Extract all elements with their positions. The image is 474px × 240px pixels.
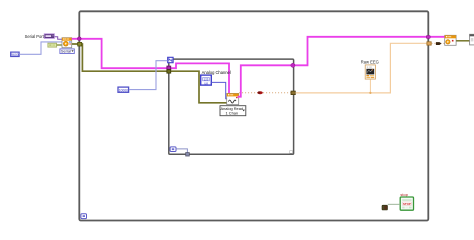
control stop button terminal — [400, 197, 413, 210]
wire iteration-to-tunnel — [176, 149, 187, 153]
error cluster constant — [48, 43, 57, 47]
wire baud-rate — [19, 42, 62, 54]
wire magenta Analog Read out to Close — [238, 37, 445, 97]
wire channel — [211, 82, 226, 98]
wire count N — [129, 61, 168, 90]
tunnel magenta on while-loop right edge — [426, 36, 430, 39]
wire error-in — [57, 44, 62, 46]
numeric constant baud — [11, 52, 19, 57]
svg-text:Analog Channel: Analog Channel — [202, 70, 231, 75]
polymorphic selector Analog Read 1 Chan — [220, 106, 246, 116]
wire VISA — [55, 37, 63, 40]
wire error Close to handler — [456, 40, 469, 42]
wire chart branch — [369, 80, 371, 93]
tunnel magenta on for-loop right edge — [291, 63, 295, 67]
loop condition terminal — [382, 205, 388, 210]
tunnel magenta on for-loop left edge — [167, 66, 171, 70]
junction chart branch — [369, 92, 371, 94]
LINX Analog Read VI — [227, 93, 239, 104]
for loop F1 border — [169, 59, 294, 154]
svg-text:10000: 10000 — [119, 88, 129, 92]
wire LINX device (magenta) Open to Analog Read — [72, 39, 229, 94]
LINX Open VI — [62, 38, 72, 48]
tunnel analog value on for-loop right edge — [291, 91, 295, 95]
wire analog value dotted inside for loop — [239, 92, 291, 94]
indicator Raw EEG waveform chart terminal — [365, 65, 375, 79]
svg-text:stop: stop — [400, 192, 408, 197]
svg-text:Serial: Serial — [61, 49, 71, 54]
for loop count terminal N — [168, 57, 173, 62]
tunnel on for-loop bottom edge — [186, 153, 190, 156]
feedback arrow on analog wire — [436, 42, 442, 45]
tunnel error on for-loop left edge — [167, 70, 171, 73]
polymorphic selector Serial — [60, 49, 74, 54]
wire stop condition — [388, 203, 401, 205]
control Analog Channel terminal — [201, 75, 212, 85]
svg-text:Raw EEG: Raw EEG — [361, 59, 379, 64]
wire error (olive) Open to Analog Read — [72, 44, 227, 103]
tunnel analog value on while-loop right edge — [427, 42, 431, 45]
breakpoint red dot — [257, 91, 262, 94]
wire analog value dotted to Close — [431, 42, 444, 44]
svg-text:U8: U8 — [204, 81, 208, 85]
numeric constant 10000 — [118, 87, 129, 92]
svg-text:1 Chan: 1 Chan — [226, 110, 239, 115]
svg-text:Serial Port: Serial Port — [25, 34, 45, 39]
tunnel magenta on while-loop left edge — [77, 37, 81, 41]
for loop iteration terminal i — [170, 147, 176, 152]
svg-text:STOP: STOP — [403, 202, 411, 206]
resize handle notch — [290, 151, 293, 154]
svg-text:9600: 9600 — [11, 53, 19, 57]
VISA resource constant — [44, 34, 54, 39]
Simple Error Handler VI — [470, 34, 474, 45]
while loop W1 border — [79, 11, 428, 220]
tunnel error on while-loop left edge — [78, 42, 82, 46]
wire analog value to chart and out — [295, 43, 427, 93]
while loop iteration terminal i — [81, 214, 87, 219]
LINX Close VI — [445, 35, 456, 45]
